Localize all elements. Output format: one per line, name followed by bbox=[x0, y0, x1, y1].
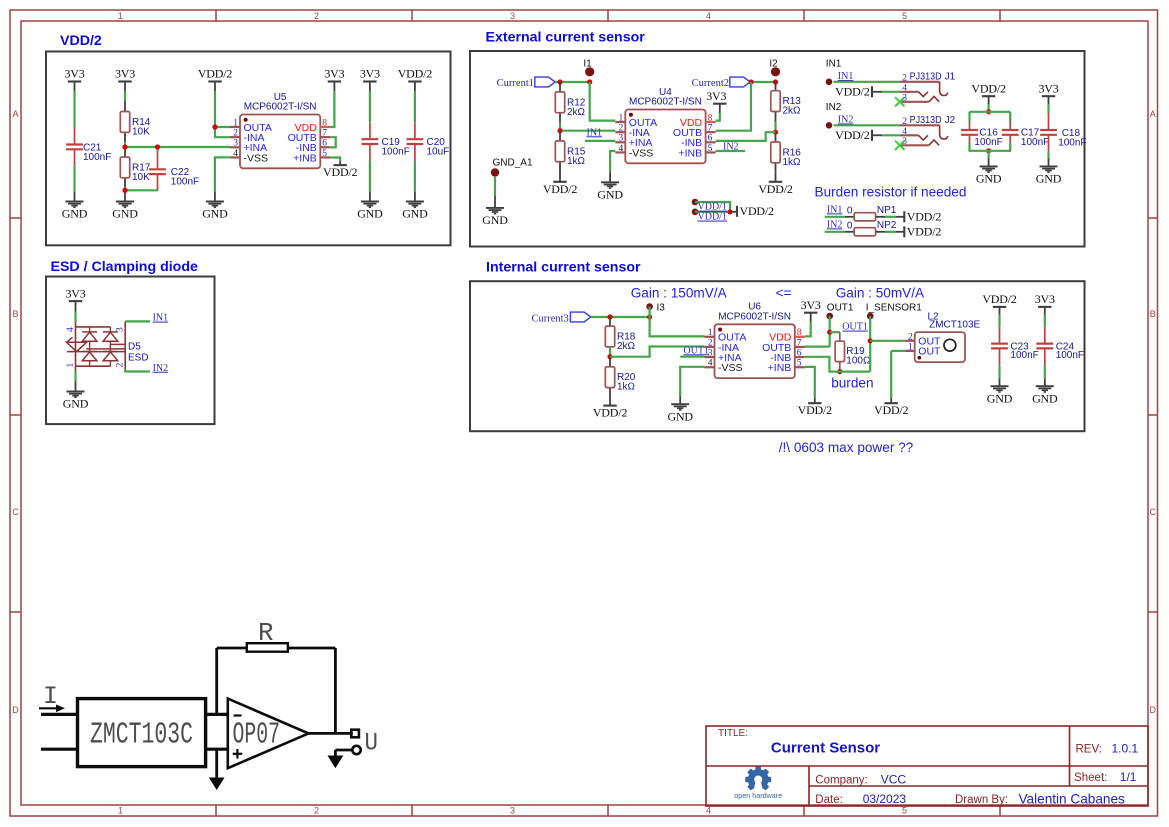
svg-text:1: 1 bbox=[619, 113, 624, 123]
svg-text:2: 2 bbox=[908, 332, 913, 342]
svg-text:GND: GND bbox=[62, 207, 88, 221]
svg-text:VDD/2: VDD/2 bbox=[398, 67, 433, 81]
svg-text:VDD/2: VDD/2 bbox=[874, 403, 909, 417]
svg-text:GND: GND bbox=[63, 397, 89, 411]
svg-text:3V3: 3V3 bbox=[1038, 81, 1058, 95]
svg-text:Current2: Current2 bbox=[692, 78, 729, 89]
svg-text:5: 5 bbox=[902, 806, 907, 816]
svg-text:100Ω: 100Ω bbox=[846, 356, 871, 367]
svg-text:100nF: 100nF bbox=[382, 147, 410, 158]
svg-text:+INB: +INB bbox=[768, 362, 792, 374]
svg-text:1: 1 bbox=[118, 11, 123, 21]
svg-text:External current sensor: External current sensor bbox=[486, 30, 646, 46]
svg-text:A: A bbox=[1150, 109, 1156, 119]
svg-text:1/1: 1/1 bbox=[1120, 770, 1137, 784]
svg-text:C: C bbox=[1150, 507, 1157, 517]
svg-text:2: 2 bbox=[314, 806, 319, 816]
svg-text:1: 1 bbox=[118, 806, 123, 816]
svg-text:GND: GND bbox=[597, 188, 623, 202]
svg-text:A: A bbox=[12, 109, 18, 119]
svg-text:100nF: 100nF bbox=[1010, 350, 1038, 361]
svg-text:NP2: NP2 bbox=[877, 220, 897, 231]
svg-text:D5: D5 bbox=[128, 342, 141, 353]
svg-text:-VSS: -VSS bbox=[718, 362, 743, 374]
svg-text:3V3: 3V3 bbox=[1035, 292, 1055, 306]
svg-text:IN2: IN2 bbox=[838, 115, 854, 126]
svg-text:GND_A1: GND_A1 bbox=[493, 157, 533, 168]
svg-text:6: 6 bbox=[797, 349, 802, 359]
svg-text:VDD/2: VDD/2 bbox=[198, 67, 233, 81]
svg-text:2: 2 bbox=[708, 338, 713, 348]
svg-text:1: 1 bbox=[66, 363, 76, 368]
svg-text:2: 2 bbox=[902, 117, 907, 127]
svg-text:Current3: Current3 bbox=[531, 313, 568, 324]
svg-text:1: 1 bbox=[708, 328, 713, 338]
svg-text:5: 5 bbox=[902, 11, 907, 21]
svg-text:3: 3 bbox=[902, 93, 907, 103]
svg-text:4: 4 bbox=[66, 327, 76, 332]
svg-text:0: 0 bbox=[847, 220, 853, 231]
svg-text:open hardware: open hardware bbox=[734, 791, 782, 800]
svg-text:2: 2 bbox=[619, 124, 624, 134]
svg-text:4: 4 bbox=[619, 144, 624, 154]
svg-text:GND: GND bbox=[482, 213, 508, 227]
svg-text:PJ313D: PJ313D bbox=[910, 115, 942, 126]
svg-text:NP1: NP1 bbox=[877, 205, 897, 216]
svg-text:U: U bbox=[365, 729, 379, 758]
svg-text:VDD/2: VDD/2 bbox=[835, 128, 870, 142]
svg-text:GND: GND bbox=[112, 207, 138, 221]
svg-text:MCP6002T-I/SN: MCP6002T-I/SN bbox=[718, 311, 791, 322]
svg-text:GND: GND bbox=[987, 391, 1013, 405]
svg-text:VDD/2: VDD/2 bbox=[907, 210, 942, 224]
svg-text:IN2: IN2 bbox=[827, 219, 843, 230]
svg-text:VDD/2: VDD/2 bbox=[798, 403, 833, 417]
svg-text:100nF: 100nF bbox=[171, 177, 199, 188]
svg-text:2: 2 bbox=[314, 11, 319, 21]
svg-text:7: 7 bbox=[708, 124, 713, 134]
svg-text:4: 4 bbox=[706, 11, 711, 21]
svg-text:IN1: IN1 bbox=[826, 59, 842, 70]
svg-text:VDD/2: VDD/2 bbox=[971, 81, 1006, 95]
svg-text:GND: GND bbox=[357, 207, 383, 221]
svg-text:2: 2 bbox=[902, 73, 907, 83]
svg-text:8: 8 bbox=[322, 118, 327, 128]
svg-text:+INB: +INB bbox=[293, 152, 317, 164]
svg-text:OUT: OUT bbox=[918, 345, 941, 357]
svg-text:J2: J2 bbox=[945, 115, 956, 126]
svg-text:Company:: Company: bbox=[815, 775, 867, 787]
svg-text:1.0.1: 1.0.1 bbox=[1112, 742, 1139, 756]
svg-text:VDD/2: VDD/2 bbox=[982, 292, 1017, 306]
svg-text:2: 2 bbox=[116, 363, 126, 368]
svg-text:3V3: 3V3 bbox=[65, 286, 85, 300]
svg-text:4: 4 bbox=[233, 149, 238, 159]
svg-text:3V3: 3V3 bbox=[324, 67, 344, 81]
svg-text:IN1: IN1 bbox=[827, 204, 843, 215]
svg-text:VDD/1: VDD/1 bbox=[698, 212, 727, 223]
svg-text:I_SENSOR1: I_SENSOR1 bbox=[866, 302, 923, 313]
svg-text:J1: J1 bbox=[945, 72, 956, 83]
svg-text:OUT1: OUT1 bbox=[827, 302, 854, 313]
svg-text:3V3: 3V3 bbox=[115, 67, 135, 81]
svg-text:3: 3 bbox=[510, 806, 515, 816]
svg-text:ESD: ESD bbox=[128, 353, 149, 364]
svg-text:IN1: IN1 bbox=[838, 71, 854, 82]
svg-text:4: 4 bbox=[708, 359, 713, 369]
svg-text:6: 6 bbox=[322, 139, 327, 149]
svg-text:VDD/2: VDD/2 bbox=[835, 85, 870, 99]
svg-text:R: R bbox=[258, 618, 274, 648]
svg-text:1kΩ: 1kΩ bbox=[617, 382, 636, 393]
svg-text:GND: GND bbox=[202, 207, 228, 221]
svg-text:3V3: 3V3 bbox=[360, 67, 380, 81]
svg-text:/!\ 0603 max power ??: /!\ 0603 max power ?? bbox=[779, 440, 914, 455]
svg-text:burden: burden bbox=[831, 375, 873, 390]
svg-text:+INB: +INB bbox=[678, 147, 702, 159]
svg-text:5: 5 bbox=[322, 149, 327, 159]
svg-text:3V3: 3V3 bbox=[706, 89, 726, 103]
svg-text:6: 6 bbox=[708, 134, 713, 144]
svg-text:1kΩ: 1kΩ bbox=[567, 156, 586, 167]
svg-text:7: 7 bbox=[322, 129, 327, 139]
svg-text:<=: <= bbox=[776, 285, 792, 300]
svg-text:3: 3 bbox=[708, 349, 713, 359]
svg-text:3: 3 bbox=[619, 134, 624, 144]
svg-text:1: 1 bbox=[233, 118, 238, 128]
svg-text:PJ313D: PJ313D bbox=[910, 72, 942, 83]
svg-text:IN2: IN2 bbox=[826, 102, 842, 113]
svg-text:D: D bbox=[1150, 705, 1157, 715]
svg-text:Gain : 50mV/A: Gain : 50mV/A bbox=[836, 285, 925, 300]
svg-text:VDD/2: VDD/2 bbox=[543, 182, 578, 196]
svg-text:C: C bbox=[12, 507, 19, 517]
svg-text:Burden resistor if needed: Burden resistor if needed bbox=[815, 185, 967, 200]
svg-text:Sheet:: Sheet: bbox=[1074, 772, 1107, 784]
svg-text:VDD/2: VDD/2 bbox=[60, 33, 102, 49]
svg-text:2kΩ: 2kΩ bbox=[567, 107, 586, 118]
svg-text:8: 8 bbox=[708, 113, 713, 123]
svg-text:GND: GND bbox=[1032, 391, 1058, 405]
svg-text:4: 4 bbox=[902, 83, 907, 93]
svg-text:GND: GND bbox=[1036, 172, 1062, 186]
svg-text:IN2: IN2 bbox=[153, 363, 169, 374]
svg-text:10uF: 10uF bbox=[427, 147, 450, 158]
svg-text:Gain : 150mV/A: Gain : 150mV/A bbox=[631, 285, 728, 300]
svg-text:Drawn By:: Drawn By: bbox=[955, 794, 1008, 806]
svg-text:3: 3 bbox=[510, 11, 515, 21]
svg-text:B: B bbox=[1150, 309, 1156, 319]
svg-text:VDD/2: VDD/2 bbox=[907, 225, 942, 239]
svg-text:0: 0 bbox=[847, 205, 853, 216]
svg-text:3V3: 3V3 bbox=[64, 67, 84, 81]
svg-text:7: 7 bbox=[797, 338, 802, 348]
svg-text:Date:: Date: bbox=[815, 794, 843, 806]
svg-text:ESD / Clamping diode: ESD / Clamping diode bbox=[51, 259, 199, 275]
svg-text:100nF: 100nF bbox=[974, 137, 1002, 148]
svg-text:ZMCT103E: ZMCT103E bbox=[929, 320, 980, 331]
svg-text:Valentin Cabanes: Valentin Cabanes bbox=[1019, 792, 1126, 807]
svg-text:IN1: IN1 bbox=[153, 313, 169, 324]
svg-text:I3: I3 bbox=[657, 302, 666, 313]
svg-text:GND: GND bbox=[976, 172, 1002, 186]
svg-text:VDD/2: VDD/2 bbox=[323, 165, 358, 179]
svg-text:D: D bbox=[12, 705, 19, 715]
svg-text:5: 5 bbox=[797, 359, 802, 369]
svg-text:I: I bbox=[43, 682, 58, 711]
svg-text:2kΩ: 2kΩ bbox=[783, 106, 802, 117]
svg-text:3: 3 bbox=[233, 139, 238, 149]
svg-text:10K: 10K bbox=[132, 126, 150, 137]
svg-text:1: 1 bbox=[908, 342, 913, 352]
svg-text:2kΩ: 2kΩ bbox=[617, 341, 636, 352]
svg-text:Internal current sensor: Internal current sensor bbox=[486, 260, 641, 276]
svg-text:100nF: 100nF bbox=[83, 152, 111, 163]
svg-text:-VSS: -VSS bbox=[244, 152, 269, 164]
svg-text:MCP6002T-I/SN: MCP6002T-I/SN bbox=[629, 97, 702, 108]
svg-text:GND: GND bbox=[667, 409, 693, 423]
svg-text:VDD/2: VDD/2 bbox=[740, 204, 775, 218]
svg-text:100nF: 100nF bbox=[1021, 137, 1049, 148]
svg-text:Current1: Current1 bbox=[497, 78, 534, 89]
svg-text:VCC: VCC bbox=[881, 773, 907, 787]
svg-text:3V3: 3V3 bbox=[801, 298, 821, 312]
svg-text:OUT1: OUT1 bbox=[842, 322, 868, 333]
svg-text:3: 3 bbox=[116, 327, 126, 332]
svg-text:REV:: REV: bbox=[1076, 744, 1102, 756]
svg-text:IN1: IN1 bbox=[587, 127, 603, 138]
svg-text:GND: GND bbox=[402, 207, 428, 221]
svg-text:VDD/2: VDD/2 bbox=[758, 182, 793, 196]
svg-text:Current Sensor: Current Sensor bbox=[771, 740, 880, 757]
svg-text:B: B bbox=[12, 309, 18, 319]
svg-text:-VSS: -VSS bbox=[629, 147, 654, 159]
svg-text:MCP6002T-I/SN: MCP6002T-I/SN bbox=[244, 102, 317, 113]
svg-text:OP07: OP07 bbox=[233, 718, 281, 753]
svg-text:5: 5 bbox=[708, 144, 713, 154]
svg-text:4: 4 bbox=[902, 127, 907, 137]
svg-text:4: 4 bbox=[706, 806, 711, 816]
svg-text:ZMCT103C: ZMCT103C bbox=[90, 718, 193, 753]
svg-text:TITLE:: TITLE: bbox=[718, 728, 748, 739]
svg-text:03/2023: 03/2023 bbox=[863, 792, 907, 806]
svg-text:VDD/2: VDD/2 bbox=[593, 406, 628, 420]
svg-text:100nF: 100nF bbox=[1056, 350, 1084, 361]
svg-text:1kΩ: 1kΩ bbox=[783, 157, 802, 168]
svg-text:10K: 10K bbox=[132, 172, 150, 183]
svg-text:3: 3 bbox=[902, 137, 907, 147]
svg-text:2: 2 bbox=[233, 129, 238, 139]
svg-text:8: 8 bbox=[797, 328, 802, 338]
svg-text:100nF: 100nF bbox=[1058, 137, 1086, 148]
